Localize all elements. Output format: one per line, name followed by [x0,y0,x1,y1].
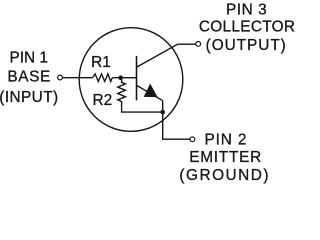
svg-text:R2: R2 [92,92,112,109]
svg-text:COLLECTOR: COLLECTOR [199,19,295,36]
resistor R2 [118,78,126,107]
wire node to base bar [121,77,136,79]
wire R1 to node [112,77,120,79]
svg-text:R1: R1 [91,54,111,71]
svg-text:PIN 2: PIN 2 [205,131,248,148]
package circle [79,28,183,132]
wire R2 bottom to emitter node [122,106,163,112]
transistor Q1 collector lead [137,44,196,67]
svg-text:EMITTER: EMITTER [189,149,262,166]
svg-text:(INPUT): (INPUT) [0,89,59,106]
resistor R1 [93,74,113,82]
transistor Q1 emitter lead [137,86,163,101]
node emitter junction [160,110,165,115]
node base junction [118,75,123,80]
pin 1 terminal [58,75,63,80]
wire base lead [63,77,93,79]
svg-text:(GROUND): (GROUND) [179,167,270,184]
svg-text:PIN 3: PIN 3 [226,2,267,19]
svg-text:BASE: BASE [7,69,50,86]
wire emitter to pin 2 [163,101,190,140]
svg-text:PIN 1: PIN 1 [9,49,48,66]
svg-text:(OUTPUT): (OUTPUT) [206,37,287,54]
transistor Q1 emitter arrow [144,84,157,96]
pin 2 terminal [190,137,195,142]
transistor Q1 base bar [136,56,138,100]
pin 3 terminal [196,42,201,47]
